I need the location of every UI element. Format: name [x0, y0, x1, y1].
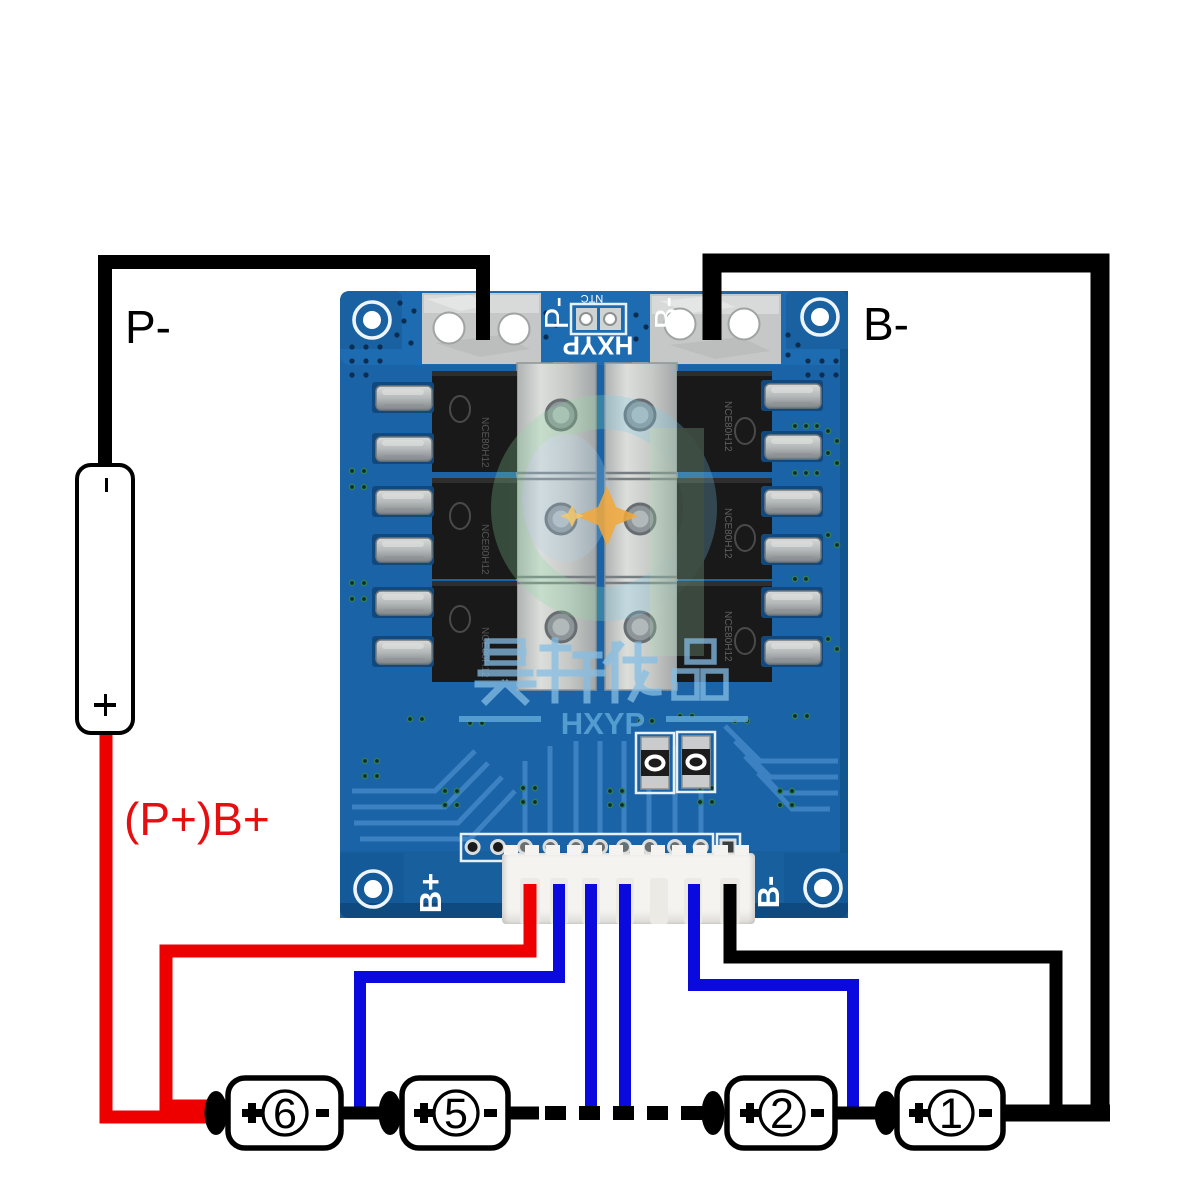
- svg-text:6: 6: [273, 1090, 297, 1138]
- svg-text:1: 1: [939, 1090, 963, 1138]
- svg-text:5: 5: [444, 1090, 468, 1138]
- svg-text:2: 2: [770, 1090, 794, 1138]
